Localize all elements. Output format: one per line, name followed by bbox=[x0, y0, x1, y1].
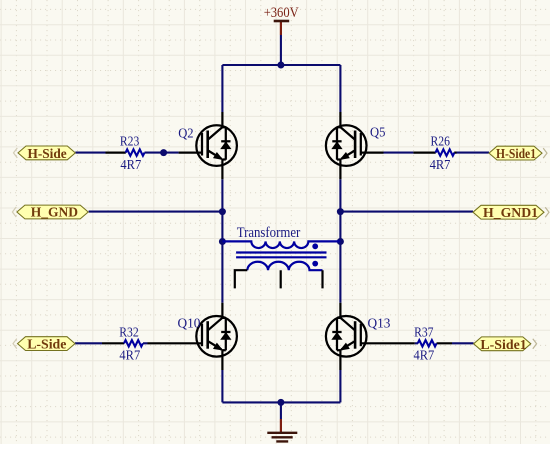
svg-text:4R7: 4R7 bbox=[120, 158, 141, 173]
svg-text:+360V: +360V bbox=[264, 5, 300, 21]
svg-text:H_GND: H_GND bbox=[31, 206, 78, 221]
svg-text:4R7: 4R7 bbox=[119, 348, 140, 363]
svg-text:H-Side1: H-Side1 bbox=[496, 147, 536, 162]
svg-text:H-Side: H-Side bbox=[28, 147, 67, 162]
svg-text:L-Side: L-Side bbox=[27, 338, 66, 353]
svg-text:Transformer: Transformer bbox=[237, 225, 301, 241]
svg-text:R37: R37 bbox=[414, 325, 433, 340]
svg-text:Q5: Q5 bbox=[370, 126, 385, 141]
svg-text:R26: R26 bbox=[431, 135, 450, 150]
svg-text:4R7: 4R7 bbox=[414, 348, 435, 363]
svg-text:4R7: 4R7 bbox=[430, 158, 451, 173]
svg-text:R32: R32 bbox=[119, 325, 138, 340]
svg-text:Q10: Q10 bbox=[178, 317, 201, 332]
svg-text:Q13: Q13 bbox=[368, 316, 391, 331]
svg-text:R23: R23 bbox=[120, 135, 139, 150]
svg-text:Q2: Q2 bbox=[178, 126, 193, 141]
svg-text:L-Side1: L-Side1 bbox=[480, 338, 526, 353]
svg-text:H_GND1: H_GND1 bbox=[483, 206, 538, 221]
